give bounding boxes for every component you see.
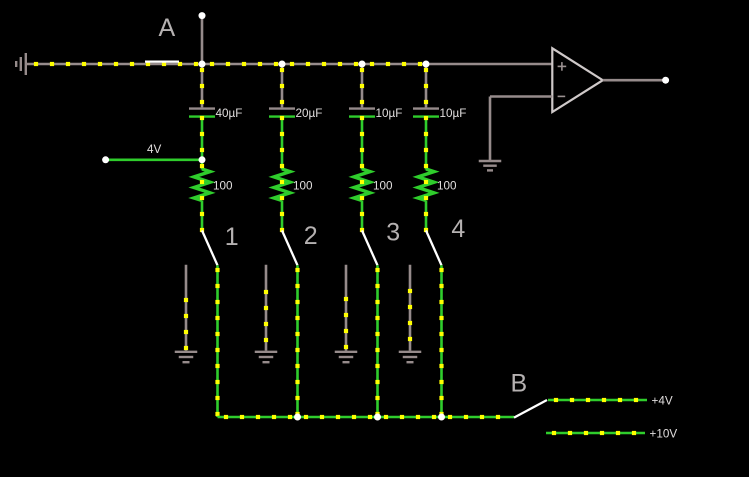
svg-text:20µF: 20µF	[296, 107, 323, 120]
switch 4 label	[451, 215, 465, 243]
capacitor C3 value label	[376, 107, 403, 120]
wire (top rail: ground to op-amp + input)	[26, 63, 552, 66]
op-amp U1 - input marker	[558, 95, 566, 97]
svg-text:40µF: 40µF	[216, 107, 243, 120]
ground (below switch 2)	[255, 352, 278, 362]
wire (top rail to C1)	[201, 64, 204, 107]
wire (switch 1 left throw to ground)	[185, 265, 188, 351]
resistor R3 100	[354, 169, 370, 201]
wire (C4 to R4)	[425, 118, 428, 170]
svg-text:4V: 4V	[147, 143, 162, 156]
junction (switch 3 / bus)	[374, 414, 381, 421]
current dots (bottom bus)	[224, 415, 500, 419]
junction (top rail / C1)	[199, 61, 206, 68]
current dots (switch 4 ground wire)	[408, 289, 412, 341]
resistor R1 100	[194, 169, 210, 201]
ground (op-amp - input)	[479, 161, 502, 170]
switch 3 label	[386, 219, 400, 247]
svg-text:10µF: 10µF	[440, 107, 467, 120]
wire (node A stub)	[201, 16, 204, 64]
wire (op-amp output)	[603, 79, 665, 82]
wire (top rail to C3)	[361, 64, 364, 107]
rail +4V label	[652, 395, 673, 408]
ground (below switch 4)	[399, 352, 422, 362]
junction (top rail / C4)	[423, 61, 430, 68]
resistor R3 value label	[373, 180, 393, 193]
svg-text:100: 100	[373, 180, 393, 193]
wire (R2 to switch 2)	[281, 201, 284, 231]
node (op-amp output terminal)	[662, 77, 669, 84]
wire (op-amp - input down lead)	[489, 97, 492, 161]
svg-text:100: 100	[437, 180, 457, 193]
svg-text:2: 2	[304, 222, 318, 250]
resistor R2 100	[274, 169, 290, 201]
capacitor C1 40µF	[189, 109, 215, 117]
node A terminal dot	[199, 12, 206, 19]
wire (switch 1 right throw to bottom bus)	[216, 265, 219, 417]
4V terminal dot	[102, 156, 109, 163]
wire (C3 to R3)	[361, 118, 364, 170]
current dots (+10V rail)	[552, 431, 636, 435]
capacitor C1 value label	[216, 107, 243, 120]
wire (op-amp - input)	[490, 95, 552, 98]
wire (bottom bus)	[218, 416, 515, 419]
svg-text:+4V: +4V	[652, 395, 673, 408]
label 4V	[147, 143, 162, 156]
svg-text:A: A	[159, 14, 176, 42]
current dots (C2/R2 branch)	[280, 68, 284, 232]
junction (switch 2 / bus)	[294, 414, 301, 421]
resistor R1 value label	[213, 180, 233, 193]
switch 2 lever (thrown right)	[282, 231, 298, 266]
rail +4V wire	[548, 399, 647, 402]
junction (4V wire / C1 / R1)	[199, 156, 206, 163]
switch B lever (thrown to +4V)	[514, 400, 547, 418]
wire (switch 2 left throw to ground)	[265, 265, 268, 351]
current dots (C4/R4 branch)	[424, 68, 428, 232]
wire (switch 2 right throw to bottom bus)	[296, 265, 299, 417]
svg-text:4: 4	[451, 215, 465, 243]
current dots (switch 2 output wire)	[295, 268, 299, 416]
wire (4V source to R1 top)	[106, 159, 203, 162]
wire (switch 4 right throw to bottom bus)	[440, 265, 443, 417]
current dots (switch 2 ground wire)	[264, 290, 268, 342]
wire (top rail to C2)	[281, 64, 284, 107]
capacitor C4 10µF	[413, 109, 439, 117]
resistor R4 value label	[437, 180, 457, 193]
svg-text:3: 3	[386, 219, 400, 247]
current dots (C3/R3 branch)	[360, 68, 364, 232]
wire (R1 to switch 1)	[201, 201, 204, 231]
switch 2 label	[304, 222, 318, 250]
switch 4 lever (thrown right)	[426, 231, 442, 266]
ground (left input ground)	[16, 53, 26, 75]
capacitor C2 20µF	[269, 109, 295, 117]
capacitor C2 value label	[296, 107, 323, 120]
current dots (switch 3 output wire)	[375, 268, 379, 416]
current dots (switch 1 ground wire)	[184, 298, 188, 350]
switch 1 lever (thrown right)	[202, 231, 218, 266]
current dots (switch 1 output wire)	[215, 268, 219, 416]
svg-text:100: 100	[293, 180, 313, 193]
capacitor C4 value label	[440, 107, 467, 120]
wire (R4 to switch 4)	[425, 201, 428, 231]
op-amp U1 + input marker	[558, 62, 567, 71]
ground (below switch 3)	[335, 352, 358, 362]
svg-text:+10V: +10V	[650, 428, 678, 441]
switch (input shorting switch, closed)	[145, 60, 179, 62]
current dots (switch 3 ground wire)	[344, 297, 348, 349]
wire (switch 3 left throw to ground)	[345, 265, 348, 351]
current dots (top rail)	[34, 62, 422, 66]
wire (C1 to R1)	[201, 118, 204, 170]
wire (switch 3 right throw to bottom bus)	[376, 265, 379, 417]
capacitor C3 10µF	[349, 109, 375, 117]
current dots (C1/R1 branch)	[200, 68, 204, 232]
wire (switch 4 left throw to ground)	[409, 265, 412, 351]
wire (R3 to switch 3)	[361, 201, 364, 231]
wire (top rail to C4)	[425, 64, 428, 107]
ground (below switch 1)	[175, 352, 198, 362]
rail +10V wire	[546, 432, 645, 435]
junction (top rail / C3)	[359, 61, 366, 68]
switch 3 lever (thrown right)	[362, 231, 378, 266]
current dots (switch 4 output wire)	[439, 268, 443, 416]
op-amp U1 body	[552, 48, 603, 112]
node A label	[159, 14, 176, 42]
switch 1 label	[225, 223, 239, 251]
svg-text:B: B	[511, 369, 528, 397]
rail +10V label	[650, 428, 678, 441]
svg-text:1: 1	[225, 223, 239, 251]
node B label	[511, 369, 528, 397]
svg-text:100: 100	[213, 180, 233, 193]
svg-text:10µF: 10µF	[376, 107, 403, 120]
resistor R2 value label	[293, 180, 313, 193]
wire (C2 to R2)	[281, 118, 284, 170]
junction (switch 4 / bus)	[438, 414, 445, 421]
junction (top rail / C2)	[279, 61, 286, 68]
current dots (+4V rail)	[554, 398, 638, 402]
resistor R4 100	[418, 169, 434, 201]
